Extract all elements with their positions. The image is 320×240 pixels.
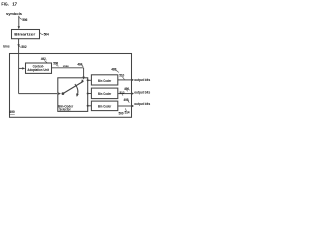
svg-text:514: 514 xyxy=(125,110,130,114)
leader 492 xyxy=(44,60,47,62)
svg-text:490: 490 xyxy=(9,110,15,114)
arrowhead selector arm tip xyxy=(81,79,84,83)
svg-text:symbols: symbols xyxy=(6,11,23,16)
leader 508 xyxy=(56,65,58,66)
wire selector to coder1 xyxy=(88,79,92,81)
svg-text:output bits: output bits xyxy=(134,78,150,82)
svg-text:output bits: output bits xyxy=(134,102,150,106)
arrowhead into CAU xyxy=(22,67,25,69)
node selector terminal 1 xyxy=(87,79,89,81)
leader 506 xyxy=(19,17,22,19)
svg-text:498,: 498, xyxy=(124,98,130,102)
wire bins vertical xyxy=(18,39,20,94)
svg-text:output bits: output bits xyxy=(134,90,150,94)
node selector input dot xyxy=(62,92,65,95)
context adaptation unit 492 xyxy=(26,63,52,73)
svg-text:488,: 488, xyxy=(111,67,117,71)
svg-text:506: 506 xyxy=(22,18,27,22)
svg-text:Bin Coder: Bin Coder xyxy=(98,79,112,83)
node selector terminal 3 xyxy=(87,105,89,107)
svg-text:500: 500 xyxy=(119,112,124,116)
svg-text:bins: bins xyxy=(3,45,9,49)
leader 502 xyxy=(19,46,21,48)
svg-text:Bin Coder: Bin Coder xyxy=(98,105,112,109)
svg-text:Selector: Selector xyxy=(59,107,71,111)
bin coder 3 box xyxy=(91,101,117,111)
arrowhead arc end xyxy=(76,93,79,96)
arrowhead output 2 xyxy=(132,92,134,94)
arrowhead on bins line xyxy=(17,44,19,47)
arrowhead into selector xyxy=(58,92,61,95)
binarizer U: box 504 xyxy=(12,30,40,39)
bin coder 1 box xyxy=(91,75,117,85)
wire bins to selector xyxy=(19,93,57,95)
svg-text:17: 17 xyxy=(12,1,17,6)
wire branch to CAU xyxy=(19,67,25,69)
arrowhead output 3 xyxy=(132,105,134,107)
leader 504 xyxy=(40,33,44,35)
wire state drop xyxy=(83,68,85,79)
leader 510 xyxy=(122,77,124,80)
leader 484 xyxy=(82,66,84,67)
outer box 490 xyxy=(10,54,132,118)
svg-text:492,: 492, xyxy=(41,57,47,61)
svg-text:496,: 496, xyxy=(124,87,130,91)
bin coder 2 box xyxy=(91,88,117,99)
wire selector to coder2 xyxy=(88,93,92,95)
leader 514 xyxy=(125,108,126,111)
svg-text:510: 510 xyxy=(119,74,124,78)
svg-text:504: 504 xyxy=(44,32,49,36)
svg-text:Adaptation Unit: Adaptation Unit xyxy=(27,68,49,72)
leader 512 xyxy=(122,94,123,95)
wire state horizontal xyxy=(51,67,83,69)
svg-text:508: 508 xyxy=(53,62,58,66)
arrowhead state drop xyxy=(82,77,84,80)
node selector terminal 2 xyxy=(87,92,89,94)
wire output arrow 3 xyxy=(118,105,132,107)
wire symbols arrow xyxy=(18,16,20,28)
svg-text:Binarizer: Binarizer xyxy=(14,32,36,36)
arrowhead output 1 xyxy=(132,79,134,81)
wire selector to coder3 xyxy=(88,105,92,107)
leader 496 xyxy=(127,90,128,91)
leader 498 xyxy=(128,101,129,102)
svg-text:FIG.: FIG. xyxy=(1,1,8,6)
svg-text:502: 502 xyxy=(21,45,26,49)
leader 488 xyxy=(117,71,119,73)
wire output arrow 2 xyxy=(118,93,132,95)
wire selector arm xyxy=(63,81,83,93)
svg-text:Bin Coder: Bin Coder xyxy=(98,92,112,96)
wire selector arc xyxy=(75,84,78,96)
wire output arrow 1 xyxy=(118,79,132,81)
svg-text:484,: 484, xyxy=(77,62,83,66)
svg-text:512: 512 xyxy=(120,91,125,95)
arrowhead into binarizer xyxy=(18,26,20,29)
svg-text:state: state xyxy=(63,64,69,68)
bin-coder selector box xyxy=(58,78,88,112)
